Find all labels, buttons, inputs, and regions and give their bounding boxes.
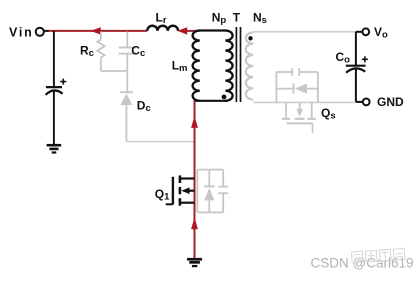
diode Q1 body [204, 188, 214, 200]
wire secondary top [253, 31, 356, 33]
wire transformer bottom [194, 100, 227, 102]
capacitor Cc [119, 32, 136, 72]
capacitor Co [346, 56, 368, 72]
wire clamp bottom [101, 70, 127, 72]
resistor Rc [97, 32, 104, 72]
wire clamp to diode [126, 71, 128, 92]
diode Dc [120, 92, 133, 141]
wire Vo drop [355, 32, 357, 66]
wire top rail red [49, 30, 148, 32]
wire clamp return [126, 141, 194, 143]
wire primary red drop [194, 101, 196, 258]
wire secondary bottom [253, 101, 356, 103]
wire input drop [53, 31, 55, 86]
arrow Qs body down [296, 109, 303, 117]
svg-text:T: T [233, 10, 241, 24]
svg-text:Vin: Vin [9, 26, 34, 40]
inductor Lr [147, 26, 178, 31]
node Vin terminal [36, 28, 44, 36]
wire Co to GND [355, 70, 357, 102]
node dot Ns [248, 36, 252, 40]
capacitor Cin [46, 79, 67, 95]
node dot Np [222, 95, 227, 100]
winding Ns [246, 32, 253, 99]
current arrow up 1 [191, 116, 198, 128]
wire transformer top [199, 29, 227, 31]
transistor Q1 snubber network [197, 170, 228, 213]
current arrow left 2 [177, 27, 187, 34]
transistor Qs network [276, 68, 318, 102]
watermark logo squares [351, 248, 405, 263]
node Vo [356, 31, 362, 33]
svg-text:GND: GND [377, 95, 404, 109]
svg-text:CSDN @Carl619: CSDN @Carl619 [311, 255, 414, 270]
ground input [47, 144, 62, 154]
core T [235, 27, 237, 102]
ground main [187, 258, 202, 267]
wire red to transformer [184, 30, 199, 32]
node GND [356, 101, 363, 103]
wire cap to ground [53, 91, 55, 144]
transistor Qs channel [282, 102, 316, 132]
current arrow left 1 [90, 27, 101, 34]
wire Vin stub [44, 30, 49, 32]
diode Qs body [295, 84, 307, 94]
current arrow up 2 [191, 217, 198, 229]
winding Np [225, 31, 232, 101]
arrow Q1 body left [181, 187, 189, 194]
transistor Q1 [166, 175, 195, 205]
inductor Lm [193, 31, 200, 101]
